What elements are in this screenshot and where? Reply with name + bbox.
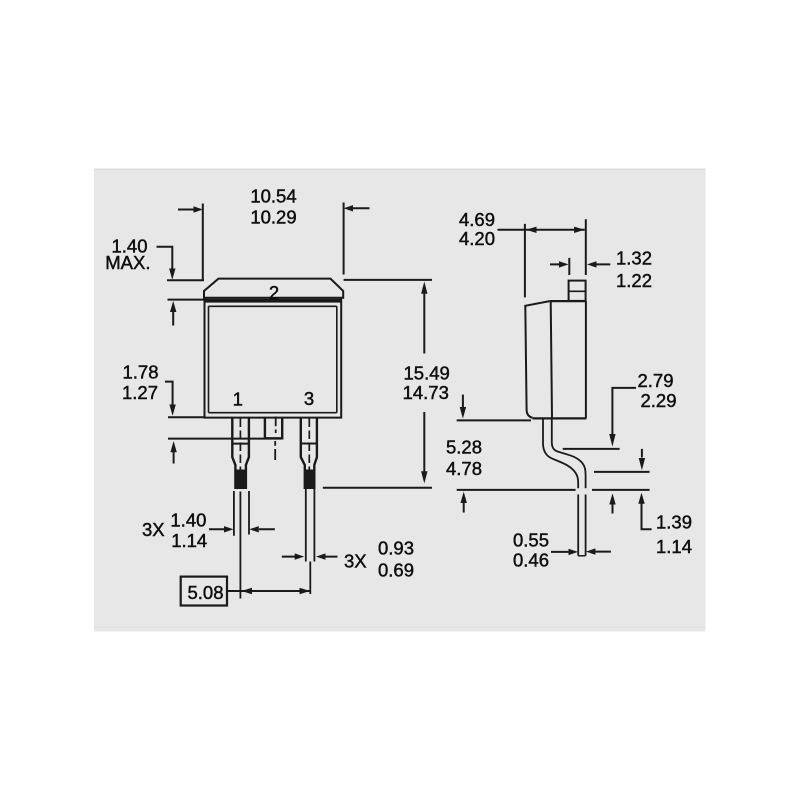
svg-text:3: 3 <box>304 388 314 409</box>
svg-text:10.29: 10.29 <box>250 207 296 228</box>
svg-text:1.39: 1.39 <box>656 511 692 532</box>
svg-text:1.22: 1.22 <box>616 270 652 291</box>
svg-text:5.28: 5.28 <box>446 437 482 458</box>
svg-text:1.14: 1.14 <box>171 530 207 551</box>
svg-text:2: 2 <box>269 282 279 303</box>
svg-text:2.29: 2.29 <box>641 390 677 411</box>
svg-text:1.78: 1.78 <box>122 362 158 383</box>
svg-text:2.79: 2.79 <box>638 370 674 391</box>
svg-text:1.40: 1.40 <box>170 510 206 531</box>
svg-text:0.69: 0.69 <box>378 560 414 581</box>
svg-text:4.78: 4.78 <box>446 458 482 479</box>
svg-text:15.49: 15.49 <box>404 363 450 384</box>
svg-text:3X: 3X <box>344 551 367 572</box>
svg-text:1.27: 1.27 <box>122 382 158 403</box>
svg-text:14.73: 14.73 <box>403 382 449 403</box>
svg-text:0.55: 0.55 <box>513 530 549 551</box>
svg-text:10.54: 10.54 <box>250 186 296 207</box>
svg-text:5.08: 5.08 <box>187 582 223 603</box>
svg-text:1: 1 <box>233 389 243 410</box>
svg-text:MAX.: MAX. <box>105 252 150 273</box>
svg-text:4.69: 4.69 <box>459 209 495 230</box>
svg-text:0.46: 0.46 <box>513 550 549 571</box>
svg-text:1.32: 1.32 <box>616 248 652 269</box>
svg-text:1.14: 1.14 <box>656 536 692 557</box>
svg-text:0.93: 0.93 <box>378 538 414 559</box>
svg-text:4.20: 4.20 <box>459 228 495 249</box>
svg-text:3X: 3X <box>142 519 165 540</box>
